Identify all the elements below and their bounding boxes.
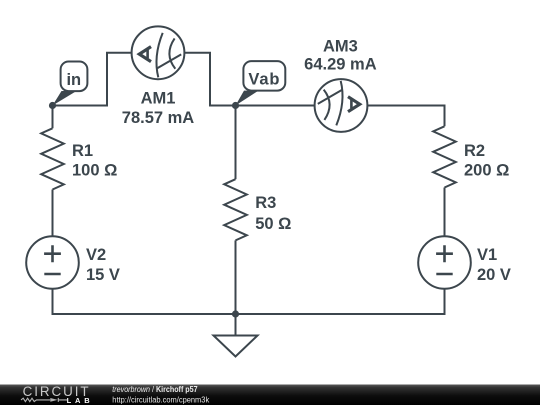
svg-text:in: in [66, 71, 81, 89]
svg-text:78.57 mA: 78.57 mA [122, 109, 195, 127]
svg-text:15 V: 15 V [86, 266, 120, 284]
svg-text:50 Ω: 50 Ω [255, 215, 291, 233]
svg-text:200 Ω: 200 Ω [464, 162, 509, 180]
svg-text:http://circuitlab.com/cpenm3k: http://circuitlab.com/cpenm3k [112, 395, 210, 404]
svg-text:Vab: Vab [248, 71, 280, 89]
svg-text:R1: R1 [72, 142, 93, 160]
svg-text:R2: R2 [464, 142, 485, 160]
svg-text:V1: V1 [477, 246, 497, 264]
svg-text:trevorbrown / Kirchoff p57: trevorbrown / Kirchoff p57 [112, 385, 198, 394]
svg-text:V2: V2 [86, 246, 106, 264]
svg-text:R3: R3 [255, 194, 276, 212]
svg-text:AM1: AM1 [141, 90, 176, 108]
svg-text:AM3: AM3 [323, 37, 358, 55]
svg-text:64.29 mA: 64.29 mA [304, 56, 377, 74]
svg-text:20 V: 20 V [477, 266, 511, 284]
svg-text:LAB: LAB [67, 396, 94, 405]
svg-text:100 Ω: 100 Ω [72, 162, 117, 180]
